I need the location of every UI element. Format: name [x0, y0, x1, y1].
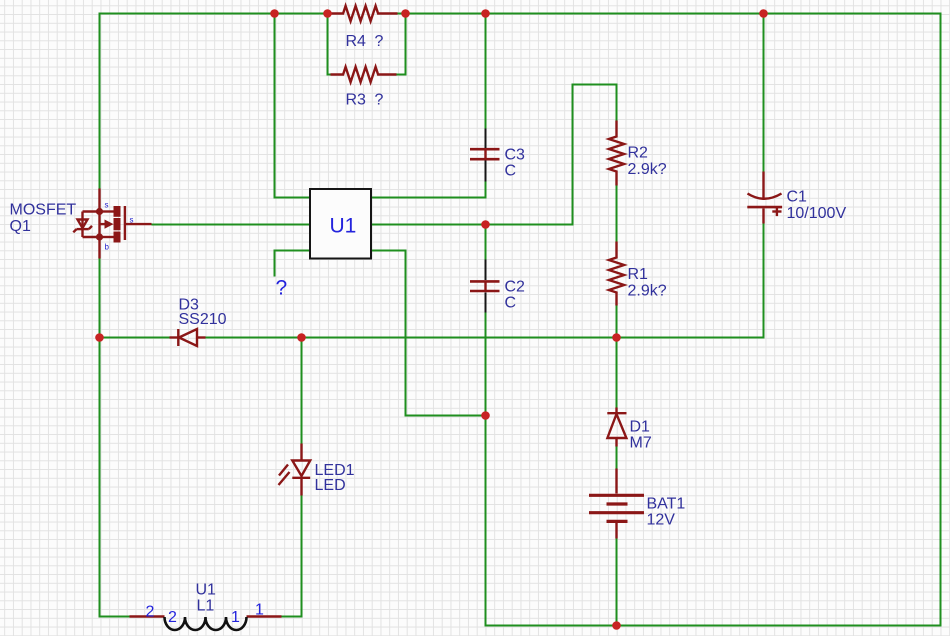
svg-text:s: s: [130, 216, 134, 225]
svg-text:?: ?: [375, 33, 384, 50]
svg-text:?: ?: [276, 277, 288, 300]
svg-text:LED: LED: [315, 477, 346, 494]
svg-text:12V: 12V: [647, 512, 676, 529]
svg-text:1: 1: [255, 602, 264, 619]
svg-text:R3: R3: [346, 92, 367, 109]
svg-text:2.9k?: 2.9k?: [628, 161, 667, 178]
svg-text:R4: R4: [346, 33, 367, 50]
svg-text:C: C: [505, 163, 517, 180]
svg-text:2: 2: [168, 609, 177, 626]
svg-text:C: C: [505, 295, 517, 312]
svg-text:2.9k?: 2.9k?: [628, 283, 667, 300]
svg-text:D1: D1: [630, 419, 651, 436]
svg-text:C2: C2: [505, 279, 526, 296]
svg-text:C1: C1: [787, 189, 808, 206]
svg-text:b: b: [105, 243, 110, 252]
svg-text:2: 2: [146, 604, 155, 621]
svg-text:R2: R2: [628, 145, 649, 162]
svg-text:10/100V: 10/100V: [787, 205, 847, 222]
svg-text:M7: M7: [630, 435, 652, 452]
svg-text:MOSFET: MOSFET: [10, 202, 77, 219]
svg-text:Q1: Q1: [10, 218, 31, 235]
svg-text:L1: L1: [197, 598, 215, 615]
svg-text:C3: C3: [505, 147, 526, 164]
svg-text:?: ?: [375, 92, 384, 109]
svg-text:U1: U1: [330, 215, 357, 238]
svg-text:U1: U1: [196, 582, 217, 599]
svg-text:s: s: [105, 201, 109, 210]
svg-text:1: 1: [231, 609, 240, 626]
svg-text:SS210: SS210: [179, 311, 227, 328]
svg-text:R1: R1: [628, 266, 649, 283]
svg-text:BAT1: BAT1: [647, 496, 686, 513]
